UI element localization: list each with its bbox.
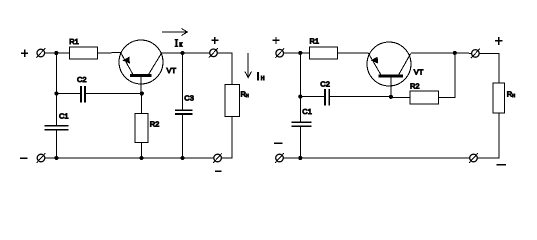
capacitor C2 (left) [81, 86, 85, 102]
junction dot bottom C1 (right) [298, 156, 302, 160]
junction dot C2 left [54, 91, 58, 95]
resistor R2 (left) [135, 114, 148, 143]
resistor Rn (left load) [225, 84, 239, 116]
wire C1 to bottom rail (right) [299, 127, 301, 158]
input terminal top-left [36, 48, 45, 58]
wire terminal to node C [284, 52, 301, 54]
wire collector to node B [162, 52, 210, 54]
wire to C2 (right) [300, 96, 324, 98]
svg-text:к: к [179, 42, 183, 49]
svg-text:C1: C1 [302, 107, 312, 116]
svg-text:I: I [257, 71, 260, 83]
capacitor C3 (left) [175, 110, 193, 114]
wire left branch upper [55, 53, 57, 126]
svg-text:н: н [512, 93, 515, 99]
plus label (right output) [495, 37, 503, 45]
arrow Ik [162, 29, 187, 36]
wire to C2 [56, 93, 80, 95]
svg-text:R2: R2 [150, 119, 160, 128]
plus label (right input) [272, 37, 279, 44]
svg-text:н: н [246, 93, 249, 99]
svg-text:C3: C3 [184, 93, 194, 102]
wire C3 lower [182, 114, 184, 158]
wire C1 to bottom rail [55, 130, 57, 158]
wire base node to R2 [141, 94, 143, 114]
base node junction [140, 91, 144, 95]
wire C2 to base node (right) [330, 96, 391, 98]
wire base node to R2 (right) [391, 97, 410, 99]
minus label (right input) [274, 142, 282, 144]
wire C3 upper [182, 53, 184, 110]
input terminal top (right circuit) [275, 48, 284, 58]
wire terminal to Rn corner [217, 53, 232, 85]
resistor R2 (right) [410, 91, 439, 104]
wire collector to node D [411, 52, 455, 54]
wire R1 to emitter [98, 52, 121, 54]
svg-text:VT: VT [414, 68, 424, 77]
capacitor C1 (right) [292, 122, 312, 126]
base node junction (right) [389, 95, 393, 99]
svg-text:C1: C1 [59, 111, 69, 120]
wire bottom rail to output terminal [183, 157, 214, 159]
junction dot C2 left (right circuit) [298, 95, 302, 99]
input terminal bottom (right circuit) [275, 153, 284, 163]
resistor R1 (right) [310, 47, 338, 59]
wire C2 to base node [85, 93, 142, 95]
junction dot bottom C3 [181, 156, 185, 160]
wire node A to R1 [56, 52, 69, 54]
transistor VT (right) [367, 42, 411, 97]
svg-text:R1: R1 [69, 37, 79, 46]
resistor Rn (right load) [493, 83, 505, 113]
node D junction [453, 51, 457, 55]
node B junction [181, 51, 185, 55]
resistor R1 [70, 47, 98, 59]
svg-text:R2: R2 [410, 81, 420, 90]
svg-text:VT: VT [167, 66, 177, 75]
svg-text:н: н [261, 75, 265, 82]
minus label (right output) [496, 164, 506, 166]
node C junction [298, 51, 302, 55]
output terminal bottom (left circuit) [213, 153, 222, 163]
svg-text:R1: R1 [310, 36, 320, 45]
svg-text:C2: C2 [320, 79, 330, 88]
capacitor C1 (left) [45, 126, 69, 130]
arrow In [245, 53, 252, 78]
input terminal bottom-left [37, 153, 46, 163]
capacitor C2 (right) [325, 89, 329, 106]
wire left branch upper (right circuit) [299, 53, 301, 122]
junction dot bottom C1 [54, 156, 58, 160]
minus label (left input) [20, 157, 28, 159]
wire Rn bottom to rail [477, 113, 499, 158]
node A junction [54, 51, 58, 55]
junction dot bottom R2 [139, 156, 143, 160]
plus label (left output) [211, 37, 218, 44]
wire Rn bottom to rail [222, 116, 232, 158]
svg-text:C2: C2 [77, 75, 87, 84]
minus label (left output) [215, 170, 222, 172]
wire R2 to bottom rail [141, 143, 143, 159]
wire bottom rail [45, 157, 183, 159]
output terminal bottom (right circuit) [469, 153, 478, 163]
wire terminal to node A [45, 52, 57, 54]
output terminal top (right circuit) [471, 49, 480, 59]
wire R1 to emitter [338, 52, 369, 54]
output terminal top (left circuit) [209, 48, 218, 58]
wire node D to output terminal [455, 52, 472, 54]
plus label (left input) [21, 49, 28, 57]
wire R2 to collector node [439, 53, 456, 98]
wire terminal to Rn corner (right) [479, 53, 499, 83]
wire bottom rail (right circuit) [283, 157, 469, 159]
transistor VT (left) [119, 40, 163, 94]
wire node C to R1 [300, 52, 309, 54]
svg-text:I: I [175, 39, 178, 50]
